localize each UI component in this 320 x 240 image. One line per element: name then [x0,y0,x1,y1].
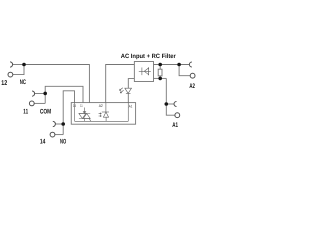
resistor R leads [159,65,161,79]
svg-text:14: 14 [40,139,46,146]
terminal 12 screw circle [8,72,13,77]
wire circle11 to node11 [34,102,45,104]
wire A2 node down to screw circle [179,65,190,76]
node 11 [43,92,47,96]
diode D2 cathode bar [141,68,143,76]
junction dots [22,63,181,126]
LED indicator [119,88,131,94]
relay module box [71,103,135,125]
svg-text:11: 11 [23,109,28,116]
triac Q1 triangle down [79,114,86,119]
svg-text:A1: A1 [172,122,178,129]
wire filter box right bottom stub [154,77,167,79]
wire A1 node to plug arc [166,103,174,105]
wire arc14 to node14 [55,123,63,125]
svg-text:12: 12 [1,80,7,87]
wire COM to relay box [45,86,83,103]
wire circle14 to node14 [55,134,63,136]
LED D1 cathode bar [126,93,131,95]
wire filter box bottom-left to LED [128,79,134,89]
wire NO to relay box [63,91,74,135]
wire relay box pin A2 up to AC bus [106,65,135,103]
terminal 14 plug arc [53,121,56,126]
AC filter diode glyph [139,67,151,75]
terminal A2 plug arc [189,62,191,67]
terminal symbols (darker) [8,62,195,137]
terminal A1 plug arc [174,102,177,107]
terminal A2 screw circle [190,73,195,78]
svg-text:NC: NC [20,79,26,86]
pin A1 inner lead [127,103,129,122]
AC input RC filter box [134,62,153,82]
svg-text:A2: A2 [189,83,195,90]
LED D1 light arrow 2 [120,90,123,93]
inner bottom wire [75,120,129,122]
terminal A1 screw circle [175,113,180,118]
svg-text:A2: A2 [99,103,103,108]
wire arc12 to node12 [13,64,25,66]
resistor R body [158,69,162,76]
diode D2 lead [139,70,151,72]
wire A1 node down to screw circle [166,104,175,115]
svg-text:11: 11 [80,103,82,108]
svg-text:A1: A1 [129,103,133,108]
triac Q1 gate [89,119,91,122]
photo-triac U1 triangle up [103,112,108,117]
svg-text:AC Input + RC Filter: AC Input + RC Filter [121,53,177,60]
wire arc11 to node11 [35,93,46,95]
svg-text:COM: COM [40,109,52,116]
node A1 [165,102,169,106]
triac Q1 top chevron [83,112,85,114]
svg-text:NO: NO [60,139,66,146]
triac Q1 bars [79,114,90,119]
photo-triac U1 bottom lead [105,117,107,121]
node R top [158,63,162,67]
wire filter box right top stub to A2 plug arc [154,64,190,66]
node R bottom [158,77,162,81]
triac Q1 triangle up [83,114,90,119]
diode D2 base bar [148,67,150,75]
labels [1,53,195,146]
triac Q1 bottom lead [84,119,86,122]
wire circle12 to node12 [13,65,24,75]
wire NC bus to relay box [24,65,89,103]
node A2 [177,63,181,67]
LED lead down to relay box pin A1 [127,94,129,103]
photo-triac U1 light arrow 2 [99,115,102,117]
terminal 14 screw circle [50,132,55,137]
inner circuit of relay box [75,103,129,122]
node 14 [61,122,65,126]
pin 14 inner lead [74,103,76,122]
diode D2 triangle left [144,68,148,75]
LED D1 light arrow 1 [119,88,122,91]
triac Q1 top lead [84,108,86,114]
wire down to A1 node [165,78,167,104]
terminal 11 screw circle [29,101,34,106]
node 12 [22,63,26,67]
photo-triac U1 top lead [105,103,107,112]
photo-triac U1 light arrow 1 [99,113,102,115]
photo-triac U1 cathode bar [102,111,109,113]
terminal 12 plug arc [10,62,13,67]
terminal 11 plug arc [32,91,35,96]
LED D1 triangle down [125,88,132,93]
